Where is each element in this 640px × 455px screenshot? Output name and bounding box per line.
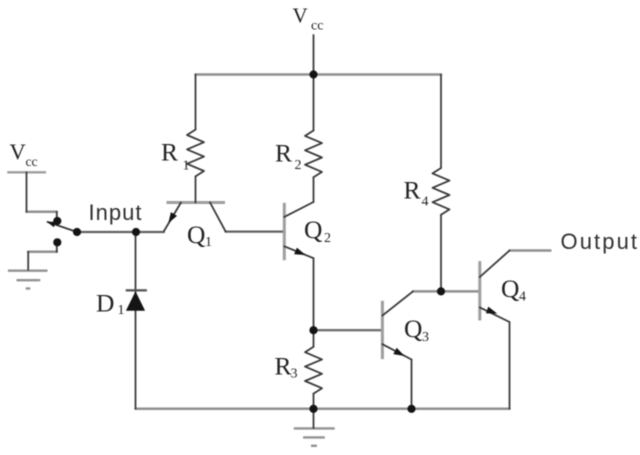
label Q3 (404, 314, 429, 345)
svg-text:1: 1 (205, 235, 212, 250)
ground (left, below switch) (8, 270, 48, 272)
label R3 (275, 352, 298, 382)
svg-text:Q: Q (501, 274, 519, 303)
svg-text:R: R (275, 352, 292, 381)
svg-text:Q: Q (187, 220, 205, 249)
svg-text:R: R (275, 139, 292, 168)
transistor Q3 emitter lead (382, 344, 411, 359)
transistor Q4 collector lead (480, 251, 510, 278)
wire: node to R3 (313, 330, 315, 347)
diode D1 cathode bar (126, 289, 147, 291)
label D1 (96, 288, 125, 318)
wire: input node through D1 to bottom rail (135, 232, 137, 409)
diode D1 triangle (126, 291, 145, 311)
wire: top power rail (196, 73, 442, 76)
svg-text:cc: cc (26, 154, 38, 169)
svg-text:2: 2 (324, 231, 331, 246)
resistor R1 (187, 130, 204, 177)
label Output (561, 229, 640, 254)
wire: Vcc bar to switch (horizontal run) (27, 211, 57, 214)
resistor R3 (305, 347, 322, 394)
label Vcc (top) (293, 4, 324, 34)
svg-text:Output: Output (561, 229, 640, 254)
wire: rail down to R1 (195, 75, 197, 130)
svg-text:2: 2 (295, 158, 302, 173)
wire: rail down to R2 (313, 75, 315, 131)
label Q4 (501, 274, 526, 305)
svg-text:Q: Q (404, 314, 422, 343)
ground (bottom center) (294, 427, 335, 429)
wire: Q4 emitter vertical (509, 322, 511, 409)
power symbol Vcc left: rail bar (7, 171, 46, 173)
transistor Q4 base bar (478, 261, 481, 320)
transistor Q2 emitter lead (284, 246, 313, 258)
svg-text:Q: Q (304, 215, 322, 244)
node: Q3 emitter / ground rail (407, 405, 415, 413)
wire: Q2 emitter vertical (313, 258, 315, 330)
label Q2 (304, 215, 331, 246)
wire: Vcc stub to top rail (313, 35, 315, 75)
node: switch upper contact (53, 217, 61, 225)
svg-text:R: R (404, 176, 421, 205)
resistor R2 (305, 131, 322, 178)
wire: R2 to Q2 collector (313, 177, 315, 202)
node: Vcc / top rail junction (309, 70, 317, 78)
node: Input / D1 junction (132, 228, 140, 236)
Q1 emitter arrow (168, 212, 177, 223)
wire: R3 to bottom rail (313, 394, 315, 409)
svg-text:4: 4 (422, 195, 429, 210)
transistor Q2 collector lead (284, 202, 313, 217)
transistor Q1 emitter lead (164, 203, 181, 232)
wire: rail down to R4 (440, 75, 442, 169)
transistor Q3 base bar (381, 301, 384, 359)
switch SW1 lever (48, 222, 78, 232)
switch lever arrow (47, 222, 56, 228)
node: R3 / ground rail (309, 405, 317, 413)
svg-text:V: V (293, 4, 308, 28)
Q4 emitter arrow (486, 307, 497, 314)
wire: Vcc bar down (switch feed) (26, 172, 28, 212)
wire: switch lower contact to ground (horizontal run) (28, 251, 57, 254)
node: Q2 emitter / R3 / Q3 base (309, 326, 317, 334)
label Input (89, 200, 143, 225)
svg-text:cc: cc (311, 19, 323, 34)
Q3 emitter arrow (393, 348, 404, 356)
svg-text:Input: Input (89, 200, 143, 225)
node: switch lower contact (53, 238, 61, 246)
wire: Q3 emitter vertical (411, 360, 413, 409)
svg-text:1: 1 (183, 159, 190, 174)
svg-text:R: R (161, 138, 178, 167)
wire: Q3 collector to Q4 base (413, 290, 480, 293)
label Vcc (left) (10, 139, 38, 169)
node: switch pole (Input) (73, 228, 81, 236)
wire: lower contact stub (56, 244, 58, 252)
wire: Input net horizontal (77, 231, 164, 233)
label R2 (275, 139, 302, 174)
wire: R4 to Q4 base node (440, 215, 442, 292)
transistor Q2 base bar (283, 203, 286, 260)
wire: rail to bottom ground symbol (313, 409, 315, 428)
wire: left ground drop (27, 252, 29, 270)
Q2 emitter arrow (294, 248, 305, 255)
node: R4 / Q3 collector / Q4 base (437, 287, 445, 295)
svg-text:D: D (96, 288, 114, 317)
transistor Q3 collector lead (382, 291, 413, 315)
transistor Q1 collector lead (210, 203, 226, 232)
label Q1 (187, 220, 212, 250)
resistor R4 (433, 168, 450, 215)
label R1 (161, 138, 190, 174)
svg-text:V: V (10, 139, 26, 164)
wire: Q1 collector to Q2 base (226, 231, 285, 233)
wire: bottom ground rail (136, 408, 510, 411)
wire: upper contact stub (56, 212, 58, 218)
wire: Q4 collector to Output (510, 249, 551, 252)
svg-text:3: 3 (291, 367, 298, 382)
label R4 (404, 176, 429, 210)
transistor Q4 emitter lead (480, 307, 510, 322)
svg-text:1: 1 (118, 303, 125, 318)
svg-text:4: 4 (519, 290, 526, 305)
transistor Q1 base bar (167, 201, 226, 204)
wire: R1 to Q1 base (195, 176, 197, 202)
svg-text:3: 3 (422, 330, 429, 345)
wire: Q2 emitter node to Q3 base (314, 329, 383, 331)
